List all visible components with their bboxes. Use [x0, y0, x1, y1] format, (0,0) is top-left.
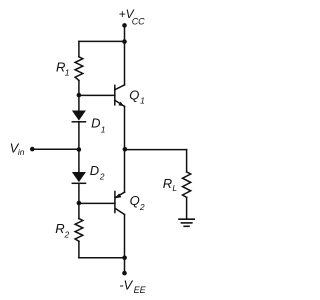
label -VEE [119, 278, 146, 296]
wire VEE stub [124, 258, 126, 273]
resistor RL [183, 172, 191, 198]
wire output horizontal [125, 149, 187, 151]
wire Q2 emitter rail [124, 150, 126, 193]
svg-text:2: 2 [139, 202, 145, 212]
transistor Q1 [115, 85, 125, 107]
svg-text:1: 1 [101, 124, 106, 134]
wire Q1 base [79, 94, 115, 96]
svg-text:R: R [55, 221, 64, 236]
wire D2 anode lead [78, 149, 80, 172]
diode D2 [72, 172, 86, 183]
resistor R1 [75, 57, 83, 81]
node +VCC terminal dot [122, 23, 127, 28]
node Vin terminal dot [30, 147, 35, 152]
svg-text:2: 2 [64, 230, 70, 240]
wire VCC stub [124, 25, 126, 41]
wire D1 anode lead [78, 95, 80, 110]
wire Q1 collector rail [124, 41, 126, 85]
svg-text:-V: -V [119, 278, 133, 293]
svg-text:CC: CC [132, 16, 145, 26]
wire bottom horizontal [79, 257, 125, 259]
label R2 [55, 221, 69, 240]
wire RL bottom lead [186, 197, 188, 219]
node junction Vin / D1 / D2 [77, 147, 82, 152]
node -VEE terminal dot [122, 271, 127, 276]
wire Q2 base [79, 202, 115, 204]
svg-text:EE: EE [134, 285, 147, 295]
node junction D2 / R2 / Q2 base [77, 201, 82, 206]
svg-text:in: in [18, 147, 25, 157]
ground [179, 219, 194, 226]
svg-text:R: R [163, 176, 172, 191]
resistor R2 [75, 219, 83, 242]
svg-text:2: 2 [99, 171, 105, 181]
wire R1 bottom lead [78, 81, 80, 96]
diode D1 [72, 111, 86, 122]
svg-text:L: L [172, 183, 177, 193]
wire top horizontal [79, 40, 125, 42]
wire R2 top lead [78, 203, 80, 218]
wire RL top lead [186, 150, 188, 172]
wire Q2 collector rail [124, 215, 126, 258]
node junction bottom wire / VEE [122, 255, 127, 260]
wire D1 cathode lead [78, 122, 80, 149]
label RL [163, 176, 178, 193]
svg-text:Q: Q [129, 88, 139, 103]
node junction R1 / D1 / Q1 base [77, 93, 82, 98]
svg-text:1: 1 [140, 96, 145, 106]
wire D2 cathode lead [78, 183, 80, 203]
label Q2 [130, 193, 145, 212]
wire Vin input [32, 148, 79, 150]
node output junction dot [123, 147, 128, 152]
label Q1 [129, 88, 145, 106]
wire R2 bottom lead [78, 241, 80, 257]
svg-text:D: D [90, 163, 99, 178]
svg-text:1: 1 [65, 68, 70, 78]
wire R1 top lead [78, 41, 80, 56]
label +VCC [119, 7, 146, 27]
transistor Q2 [115, 192, 125, 215]
node junction VCC / top wire [122, 39, 127, 44]
label D2 [90, 163, 105, 181]
label R1 [56, 59, 70, 77]
svg-text:D: D [91, 116, 100, 131]
svg-text:Q: Q [130, 193, 140, 208]
wire Q1 emitter rail [124, 106, 126, 149]
label D1 [91, 116, 106, 135]
label Vin [10, 140, 25, 157]
